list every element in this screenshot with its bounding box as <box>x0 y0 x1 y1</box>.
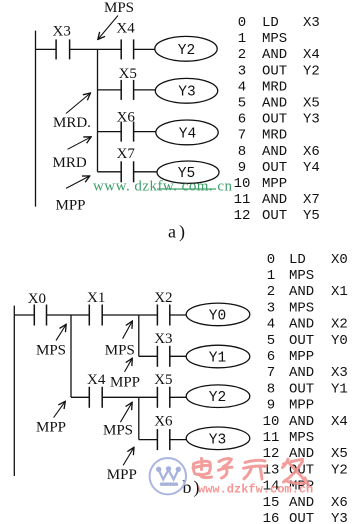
list b row 6: MPP <box>267 349 314 365</box>
arrow MPP 1 to node B2 <box>125 358 133 372</box>
contact X5 (network b) <box>157 387 169 408</box>
svg-text:MPP: MPP <box>289 398 314 414</box>
coil Y2 <box>155 36 217 61</box>
wire rung 4b: node B3 to contact X6 <box>139 439 158 441</box>
wire rung 2a: node A to contact X5 <box>98 89 122 91</box>
svg-text:X4: X4 <box>87 372 106 388</box>
list b row 1: MPS <box>267 268 314 284</box>
svg-text:Y3: Y3 <box>209 432 226 448</box>
svg-text:OUT: OUT <box>289 381 314 397</box>
svg-text:MPS: MPS <box>103 422 133 438</box>
wire rung 1a: rail to contact X3 <box>36 48 57 50</box>
contact X3 <box>56 39 70 59</box>
wire rung 4b: X6 to coil Y3 <box>170 439 187 441</box>
coil Y4 <box>156 120 218 145</box>
svg-text:X2: X2 <box>154 290 172 306</box>
svg-text:X4: X4 <box>331 414 348 430</box>
arrow MPP to node A (network a) <box>66 176 90 189</box>
list a row 6: OUT Y3 <box>238 112 320 128</box>
contact X6 (network b) <box>157 429 169 450</box>
svg-text:Y2: Y2 <box>178 43 195 59</box>
wire rung 1b: node B1 to contact X1 <box>71 314 89 316</box>
wire rung 3b: X4 to node B3 <box>102 396 139 398</box>
svg-text:X5: X5 <box>303 96 320 112</box>
instruction list b <box>263 252 348 524</box>
wire rung 3b: node B3 to contact X5 <box>139 396 158 398</box>
svg-text:OUT: OUT <box>262 160 287 176</box>
watermark green url www.dzkfw.com.cn <box>93 179 233 195</box>
list b row 13: OUT Y2 <box>263 462 348 478</box>
list b row 12: AND X5 <box>263 446 348 462</box>
svg-text:5: 5 <box>267 333 275 349</box>
coil Y3 (network b) <box>186 427 250 450</box>
svg-text:AND: AND <box>289 495 314 511</box>
wire rung 3a: node A to contact X6 <box>98 131 122 133</box>
arrow MPS 3 to node B3 <box>120 402 132 422</box>
svg-text:Y2: Y2 <box>209 390 226 406</box>
svg-text:2: 2 <box>267 284 275 300</box>
list a row 11: AND X7 <box>234 192 320 208</box>
coil Y2 (network b) <box>186 385 250 408</box>
svg-text:MRD: MRD <box>53 155 87 171</box>
svg-text:OUT: OUT <box>289 511 314 524</box>
svg-text:1: 1 <box>267 268 275 284</box>
watermark logo W circle <box>150 458 186 494</box>
list b row 3: MPS <box>267 300 314 316</box>
svg-text:X1: X1 <box>87 290 105 306</box>
wire rung 1b: X0 to node B1 <box>47 314 72 316</box>
contact X4 (network b) <box>89 387 102 408</box>
svg-text:LD: LD <box>289 252 306 268</box>
list a row 0: LD X3 <box>238 15 320 31</box>
svg-text:Y4: Y4 <box>179 126 196 142</box>
list b row 7: AND X3 <box>267 365 348 381</box>
svg-text:X1: X1 <box>331 284 348 300</box>
svg-text:X3: X3 <box>154 331 172 347</box>
svg-text:MPS: MPS <box>289 268 314 284</box>
svg-text:Y3: Y3 <box>303 112 320 128</box>
wire rung 1a: node A to contact X4 <box>98 48 122 50</box>
wire rung 1b: node B2 to contact X2 <box>139 314 158 316</box>
svg-text:9: 9 <box>238 160 246 176</box>
svg-text:11: 11 <box>263 430 280 446</box>
list b row 4: AND X2 <box>267 317 348 333</box>
svg-text:X5: X5 <box>154 372 172 388</box>
wire rung 3b: X5 to coil Y2 <box>170 396 187 398</box>
list a row 2: AND X4 <box>238 47 320 63</box>
svg-text:AND: AND <box>262 47 287 63</box>
svg-text:2: 2 <box>238 47 246 63</box>
svg-text:Y1: Y1 <box>209 351 226 367</box>
arrow MRD 2 to node A <box>68 137 92 150</box>
list b row 8: OUT Y1 <box>267 381 348 397</box>
svg-text:X5: X5 <box>119 66 137 82</box>
svg-text:X6: X6 <box>303 144 320 160</box>
coil Y5 <box>157 161 219 183</box>
svg-text:MPP: MPP <box>56 198 86 214</box>
svg-text:Y0: Y0 <box>209 308 226 324</box>
svg-text:a): a) <box>168 222 188 243</box>
contact X3 (network b) <box>157 346 169 367</box>
arrow MPP 2 to node B1 <box>54 401 66 417</box>
contact X2 <box>157 305 169 326</box>
list a row 5: AND X5 <box>238 96 320 112</box>
coil Y1 <box>186 345 250 368</box>
list b row 14: MPP <box>263 479 315 495</box>
wire rung 1b: X1 to node B2 <box>102 314 139 316</box>
svg-text:10: 10 <box>263 414 280 430</box>
svg-text:AND: AND <box>262 192 287 208</box>
wire rung 3a: X6 to coil Y4 <box>134 131 156 133</box>
wire rung 4a: node A to contact X7 <box>98 171 122 173</box>
list a row 4: MRD <box>238 79 287 95</box>
svg-text:X0: X0 <box>331 252 348 268</box>
svg-text:MRD: MRD <box>262 128 287 144</box>
watermark red text dian zi kai fa <box>193 459 309 486</box>
svg-text:MPS: MPS <box>104 0 134 16</box>
svg-text:X5: X5 <box>331 446 348 462</box>
svg-text:9: 9 <box>267 398 275 414</box>
svg-text:Y0: Y0 <box>331 333 348 349</box>
svg-text:Y3: Y3 <box>331 511 348 524</box>
svg-text:X6: X6 <box>117 110 136 126</box>
wire left power rail (network a) <box>35 31 37 207</box>
arrow MRD 1 to node A <box>66 93 91 114</box>
arrow MPS 1 to node B1 <box>56 324 66 340</box>
list b row 11: MPS <box>263 430 315 446</box>
svg-text:Y3: Y3 <box>178 85 195 101</box>
svg-text:MRD: MRD <box>262 79 287 95</box>
svg-text:X3: X3 <box>53 24 71 40</box>
wire branch vertical node B2 <box>138 315 140 356</box>
instruction list a <box>234 15 320 224</box>
wire rung 1a: X3 to node A junction <box>70 48 98 50</box>
svg-text:X7: X7 <box>303 192 320 208</box>
list b row 9: MPP <box>267 398 314 414</box>
svg-text:MPS: MPS <box>262 31 287 47</box>
wire rung 1b: rail to contact X0 <box>14 314 34 316</box>
list a row 1: MPS <box>238 31 287 47</box>
svg-text:MPP: MPP <box>262 176 287 192</box>
svg-text:MPS: MPS <box>36 343 66 359</box>
svg-text:X2: X2 <box>331 317 348 333</box>
svg-text:1: 1 <box>238 31 246 47</box>
coil Y0 <box>186 303 250 326</box>
svg-text:X0: X0 <box>28 291 46 307</box>
svg-text:0: 0 <box>238 15 246 31</box>
svg-text:X6: X6 <box>331 495 348 511</box>
svg-text:0: 0 <box>267 252 275 268</box>
list b row 2: AND X1 <box>267 284 348 300</box>
svg-text:LD: LD <box>262 15 279 31</box>
list b row 10: AND X4 <box>263 414 348 430</box>
svg-text:OUT: OUT <box>262 208 287 224</box>
svg-text:15: 15 <box>263 495 280 511</box>
wire branch vertical node B3 <box>138 397 140 439</box>
svg-text:X6: X6 <box>154 413 173 429</box>
svg-text:OUT: OUT <box>262 63 287 79</box>
svg-text:AND: AND <box>262 144 287 160</box>
list a row 8: AND X6 <box>238 144 320 160</box>
svg-text:MPS: MPS <box>289 300 314 316</box>
svg-text:4: 4 <box>267 317 275 333</box>
svg-text:X7: X7 <box>117 146 136 162</box>
arrow MPS to node A (network a) <box>98 16 118 40</box>
svg-text:12: 12 <box>234 208 251 224</box>
svg-text:X3: X3 <box>331 365 348 381</box>
svg-text:X3: X3 <box>303 15 320 31</box>
svg-text:16: 16 <box>263 511 280 524</box>
svg-text:Y1: Y1 <box>331 381 348 397</box>
svg-text:MPP: MPP <box>110 374 140 390</box>
svg-text:MPP: MPP <box>36 420 66 436</box>
wire left power rail (network b) <box>13 306 15 476</box>
svg-text:3: 3 <box>238 63 246 79</box>
svg-text:Y2: Y2 <box>331 462 348 478</box>
list b row 16: OUT Y3 <box>263 511 348 524</box>
contact X1 <box>89 305 102 326</box>
list a row 7: MRD <box>238 128 287 144</box>
list a row 3: OUT Y2 <box>238 63 320 79</box>
svg-text:7: 7 <box>267 365 275 381</box>
svg-text:11: 11 <box>234 192 251 208</box>
svg-text:MPS: MPS <box>289 430 314 446</box>
list b row 0: LD X0 <box>267 252 348 268</box>
svg-text:AND: AND <box>289 284 314 300</box>
svg-text:X4: X4 <box>116 21 135 37</box>
wire rung 2b: X3 to coil Y1 <box>170 355 187 357</box>
svg-text:MRD.: MRD. <box>53 115 91 131</box>
svg-text:AND: AND <box>289 317 314 333</box>
svg-text:Y5: Y5 <box>303 208 320 224</box>
list b row 5: OUT Y0 <box>267 333 348 349</box>
svg-text:X4: X4 <box>303 47 320 63</box>
list a row 10: MPP <box>234 176 288 192</box>
svg-text:8: 8 <box>238 144 246 160</box>
svg-text:8: 8 <box>267 381 275 397</box>
arrow MPP 3 to node B3 <box>123 447 134 465</box>
svg-text:6: 6 <box>267 349 275 365</box>
svg-text:www. dzkfw. com. cn: www. dzkfw. com. cn <box>93 179 233 195</box>
svg-text:OUT: OUT <box>289 333 314 349</box>
svg-text:AND: AND <box>289 365 314 381</box>
svg-text:6: 6 <box>238 112 246 128</box>
svg-text:10: 10 <box>234 176 251 192</box>
svg-text:3: 3 <box>267 300 275 316</box>
wire rung 1b: X2 to coil Y0 <box>170 314 187 316</box>
contact X0 <box>34 305 46 326</box>
contact X6 <box>121 122 133 142</box>
wire branch vertical node A (MPS stack point) <box>97 49 99 171</box>
contact X4 <box>121 39 133 59</box>
svg-text:www.dzkfw.com.cn: www.dzkfw.com.cn <box>198 483 313 497</box>
list a row 9: OUT Y4 <box>238 160 320 176</box>
wire rung 1a: X4 to coil Y2 <box>134 48 155 50</box>
svg-text:4: 4 <box>238 79 246 95</box>
svg-text:Y2: Y2 <box>303 63 320 79</box>
coil Y3 <box>155 78 217 103</box>
wire rung 2b: node B2 to contact X3 <box>139 355 158 357</box>
wire rung 4a: X7 to coil Y5 <box>134 171 158 173</box>
svg-text:OUT: OUT <box>262 112 287 128</box>
contact X5 <box>121 80 133 100</box>
svg-text:MPS: MPS <box>105 342 135 358</box>
svg-text:MPP: MPP <box>289 349 314 365</box>
wire rung 2a: X5 to coil Y3 <box>134 89 156 91</box>
svg-text:AND: AND <box>262 96 287 112</box>
svg-text:5: 5 <box>238 96 246 112</box>
svg-text:MPP: MPP <box>107 467 137 483</box>
list a row 12: OUT Y5 <box>234 208 320 224</box>
contact X7 <box>121 161 133 182</box>
svg-text:AND: AND <box>289 414 314 430</box>
svg-text:7: 7 <box>238 128 246 144</box>
list b row 15: AND X6 <box>263 495 348 511</box>
wire rung 3b: node B1 to contact X4 <box>71 396 89 398</box>
wire branch vertical node B1 <box>70 315 72 397</box>
arrow MPS 2 to node B2 <box>123 321 133 339</box>
svg-text:Y4: Y4 <box>303 160 320 176</box>
